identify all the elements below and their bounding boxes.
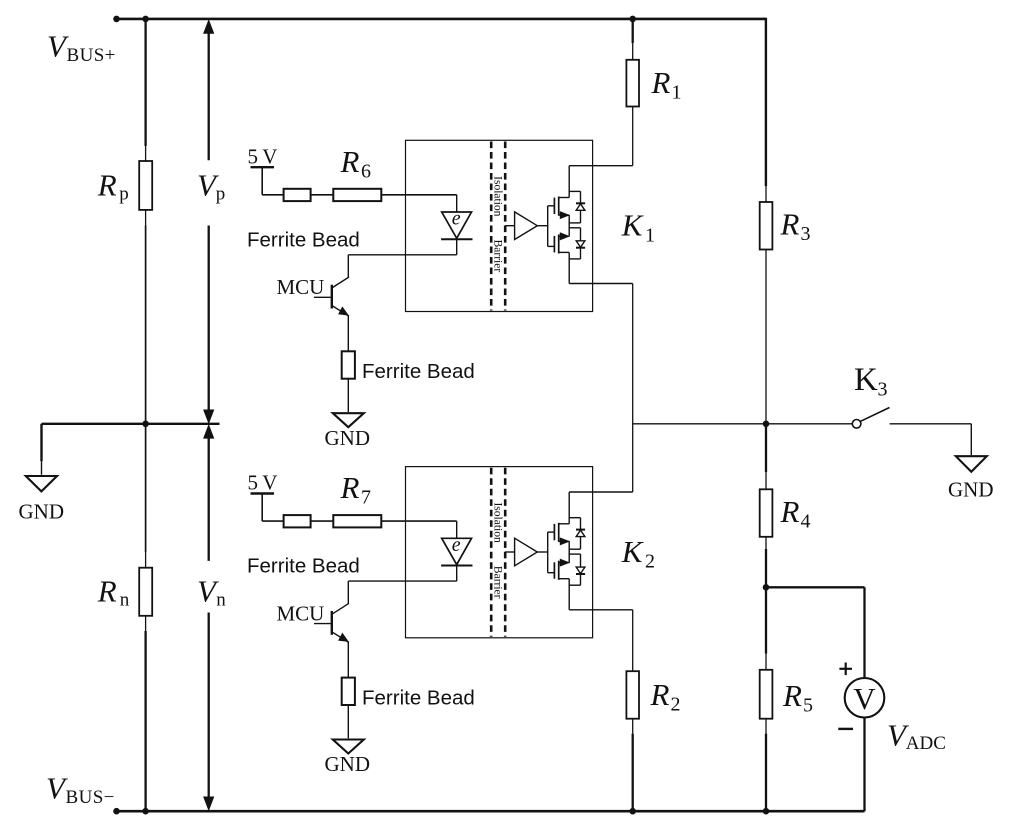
isolation block K1 enclosure [406, 140, 593, 311]
wire LED anode lead (K2) [456, 521, 458, 538]
buffer driver triangle (K1) [515, 212, 538, 240]
wire emitter to ferrite bead (K2) [347, 642, 349, 677]
wire buffer output to gates (K1) [537, 225, 547, 227]
power 5V bar (K2) [251, 492, 275, 494]
wire lower output jog (K2) [569, 609, 633, 611]
svg-text:5 V: 5 V [248, 471, 278, 495]
mosfet upper channel bar (K1) [558, 197, 560, 216]
resistor R_4 [760, 489, 773, 537]
wire lower gate stub (K2) [548, 572, 555, 574]
svg-text:R: R [650, 677, 670, 712]
wire middle rail to switch [766, 423, 852, 425]
svg-text:BUS+: BUS+ [67, 45, 116, 66]
wire upper gate stub (K1) [548, 205, 555, 207]
wire upper output jog (K1) [569, 165, 633, 167]
svg-text:GND: GND [948, 477, 994, 501]
mosfet upper source line (K1) [559, 214, 570, 216]
wire R_4 top lead [765, 472, 767, 489]
label voltmeter minus [838, 728, 853, 730]
wire R_4 to V_ADC junction [765, 549, 767, 587]
svg-text:GND: GND [19, 500, 65, 524]
diode lower body lead bottom (K1) [580, 248, 582, 259]
svg-text:5 V: 5 V [248, 144, 278, 168]
mosfet lower source line (K1) [559, 235, 570, 237]
svg-text:2: 2 [671, 693, 681, 715]
wire R_1 branch from top bus [632, 19, 634, 43]
wire R_2 to bottom bus [632, 734, 634, 812]
wire upper body-diode top jog (K1) [569, 190, 580, 192]
svg-text:5: 5 [803, 694, 813, 716]
resistor R_2 [626, 671, 639, 719]
wire upper body-diode bottom jog (K1) [569, 222, 580, 224]
svg-text:1: 1 [645, 224, 655, 246]
wire R_p bottom lead [145, 210, 147, 226]
diode upper body triangle (K2) [576, 530, 585, 537]
wire R6 to LED anode (K1) [381, 194, 456, 196]
switch K3 blade [861, 408, 890, 422]
svg-text:Isolation: Isolation [492, 176, 504, 216]
mosfet upper gate bar (K2) [553, 524, 555, 540]
diode upper body lead bottom (K1) [580, 210, 582, 223]
transistor MCU collector (K1) [332, 277, 349, 288]
svg-text:p: p [119, 184, 129, 205]
wire lower output jog (K1) [569, 283, 633, 285]
wire switch to right GND corner [890, 423, 972, 425]
transistor MCU base bar (K1) [331, 285, 333, 309]
wire R_n bottom lead [145, 616, 147, 631]
diode lower body cathode bar (K1) [576, 247, 585, 249]
wire R_p top lead [145, 146, 147, 161]
mosfet lower gate bar (K2) [553, 562, 555, 578]
resistor R_3 [760, 202, 773, 250]
svg-text:R: R [651, 65, 671, 100]
node junction middle rail / right branch [763, 421, 770, 428]
diode lower body triangle (K1) [576, 241, 585, 248]
mosfet upper source line (K2) [559, 540, 570, 542]
wire upper gate stub (K2) [548, 531, 555, 533]
transistor MCU emitter (K1) [332, 306, 349, 317]
wire middle rail left segment [42, 423, 220, 425]
isolation barrier dashed line right (K2) [504, 468, 507, 637]
isolation barrier dashed line left (K2) [490, 468, 493, 637]
svg-text:Isolation: Isolation [492, 502, 504, 542]
power 5V bar (K1) [251, 166, 275, 168]
ground MCU GND symbol (K1) [333, 413, 364, 427]
resistor R_n [139, 568, 152, 616]
transistor MCU emitter (K2) [332, 632, 349, 643]
arrow V_n shaft [208, 437, 210, 561]
diode upper body lead top (K2) [580, 518, 582, 530]
ferrite bead series element (K1) [284, 189, 311, 201]
resistor R_5 [760, 670, 773, 719]
arrow V_p shaft upper [208, 32, 210, 161]
ferrite bead series element (K2) [284, 515, 311, 527]
wire R_n top lead [145, 552, 147, 568]
svg-text:Ferrite Bead: Ferrite Bead [362, 360, 475, 383]
opto LED cathode bar (K2) [441, 565, 472, 567]
wire ferrite bead to GND (K1) [347, 379, 349, 412]
wire ferrite bead to R7 (K2) [311, 520, 334, 522]
wire R_2 bottom lead [632, 719, 634, 734]
wire R_4 bottom lead [765, 537, 767, 549]
svg-text:Barrier: Barrier [492, 566, 504, 599]
resistor R_1 [626, 60, 639, 107]
wire voltmeter bottom lead [863, 718, 865, 812]
mosfet lower drain stub (K2) [559, 578, 570, 580]
node junction top bus / R_1 branch [629, 16, 636, 23]
isolation barrier dashed line right (K1) [504, 142, 507, 311]
wire LED cathode lead (K1) [456, 239, 458, 255]
node top-left terminal dot [113, 16, 120, 23]
mosfet upper source arrow (K2) [560, 538, 568, 545]
diode upper body cathode bar (K1) [576, 202, 585, 204]
svg-text:R: R [780, 206, 800, 241]
wire ferrite bead to GND (K2) [347, 705, 349, 738]
wire bottom bus V_BUS- [117, 810, 865, 813]
wire ferrite bead to R6 (K1) [311, 194, 334, 196]
svg-text:K: K [621, 534, 645, 569]
mosfet lower channel bar (K1) [558, 234, 560, 253]
transistor MCU base lead (K1) [314, 296, 331, 298]
mosfet lower source arrow (K1) [560, 233, 568, 240]
arrow V_p head up [204, 20, 214, 33]
svg-text:R: R [782, 678, 802, 713]
wire common source vertical (K1) [568, 215, 570, 236]
opto LED emitter triangle (K1) [442, 212, 472, 238]
mosfet lower channel bar (K2) [558, 561, 560, 580]
diode lower body lead top (K1) [580, 228, 582, 241]
svg-text:7: 7 [361, 487, 371, 509]
wire left GND drop [40, 424, 42, 462]
node junction middle rail / left branch [142, 421, 149, 428]
diode lower body lead top (K2) [580, 554, 582, 567]
mosfet upper drain stub (K2) [559, 523, 570, 525]
mosfet upper drain stub (K1) [559, 197, 570, 199]
mosfet upper gate bar (K1) [553, 198, 555, 214]
svg-text:e: e [452, 534, 461, 556]
svg-text:3: 3 [878, 378, 888, 400]
svg-text:R: R [340, 144, 360, 179]
wire LED cathode lead (K2) [456, 566, 458, 582]
svg-text:MCU: MCU [277, 275, 325, 299]
ground right GND symbol [956, 456, 987, 472]
svg-text:4: 4 [801, 510, 811, 532]
svg-text:R: R [97, 573, 117, 608]
wire 5V stub down (K1) [261, 167, 263, 195]
wire top bus V_BUS+ [117, 18, 766, 21]
svg-text:Ferrite Bead: Ferrite Bead [247, 228, 360, 251]
wire buffer output to gates (K2) [537, 551, 547, 553]
node junction bottom bus / R_n branch [142, 808, 149, 815]
transistor MCU emitter arrow (K1) [339, 307, 348, 315]
diode lower body lead bottom (K2) [580, 574, 582, 585]
wire lower body-diode bottom jog (K2) [569, 584, 580, 586]
node junction bottom bus / R_2 branch [629, 808, 636, 815]
svg-text:V: V [853, 681, 876, 716]
wire lower gate stub (K1) [548, 245, 555, 247]
svg-text:6: 6 [361, 160, 371, 182]
wire lower body-diode top jog (K1) [569, 227, 580, 229]
ferrite bead shunt element (K1) [342, 351, 355, 378]
wire R_5 to bottom bus [765, 734, 767, 812]
wire 5V stub down (K2) [261, 494, 263, 522]
buffer input stub (K1) [505, 225, 514, 227]
wire upper body-diode top jog (K2) [569, 517, 580, 519]
wire R_3 bottom lead [765, 250, 767, 424]
resistor R_p [139, 161, 152, 210]
wire lower drain vertical (K2) [568, 579, 570, 610]
diode upper body lead bottom (K2) [580, 537, 582, 550]
voltmeter V_ADC [845, 678, 885, 718]
diode upper body lead top (K1) [580, 191, 582, 203]
diode upper body triangle (K1) [576, 204, 585, 211]
wire upper body-diode bottom jog (K2) [569, 548, 580, 550]
wire lower body-diode bottom jog (K1) [569, 258, 580, 260]
svg-text:n: n [120, 589, 130, 610]
wire V_ADC tap horizontal [766, 586, 865, 588]
node junction top bus / R_p branch [142, 16, 149, 23]
wire gate link vertical (K2) [547, 532, 549, 573]
transistor MCU base lead (K2) [314, 623, 331, 625]
wire middle rail K outputs to right branch [633, 423, 766, 425]
wire K outputs vertical (K1 lower to K2 upper through rail) [632, 284, 634, 493]
buffer input stub (K2) [505, 551, 514, 553]
svg-text:1: 1 [672, 81, 682, 103]
wire emitter to ferrite bead (K1) [347, 316, 349, 351]
wire upper drain vertical (K1) [568, 166, 570, 198]
transistor MCU base bar (K2) [331, 611, 333, 635]
mosfet upper source arrow (K1) [560, 212, 568, 219]
wire 5V to ferrite bead (K2) [262, 520, 283, 522]
svg-text:R: R [97, 167, 117, 202]
arrow V_p head down [204, 410, 214, 423]
svg-text:K: K [621, 208, 645, 243]
wire common source vertical (K2) [568, 541, 570, 562]
wire R_5 top lead [765, 654, 767, 670]
wire upper output jog (K2) [569, 491, 633, 493]
diode lower body triangle (K2) [576, 567, 585, 574]
svg-text:p: p [216, 184, 226, 205]
diode upper body cathode bar (K2) [576, 529, 585, 531]
svg-text:MCU: MCU [277, 601, 325, 625]
svg-text:GND: GND [325, 426, 371, 450]
switch K3 pivot [852, 420, 861, 429]
wire top bus right corner down to R_3 [765, 18, 767, 186]
wire left branch upper segment [144, 19, 146, 146]
node junction R_4 / V_ADC tap [763, 584, 770, 591]
wire left branch lower segment [144, 631, 146, 811]
wire lower body-diode top jog (K2) [569, 553, 580, 555]
svg-text:Ferrite Bead: Ferrite Bead [362, 687, 475, 710]
wire voltmeter top lead [863, 587, 865, 678]
wire R7 to LED anode (K2) [381, 520, 456, 522]
wire R_2 top lead [632, 610, 634, 671]
mosfet lower source arrow (K2) [560, 559, 568, 566]
wire LED anode lead (K1) [456, 195, 458, 212]
wire junction to R_5 [765, 587, 767, 653]
isolation barrier dashed line left (K1) [490, 142, 493, 311]
wire R_5 bottom lead [765, 719, 767, 734]
buffer driver triangle (K2) [515, 538, 538, 566]
svg-text:R: R [340, 470, 360, 505]
transistor MCU collector (K2) [332, 603, 349, 614]
arrow V_n head down [204, 797, 214, 810]
svg-text:3: 3 [801, 223, 811, 245]
diode lower body cathode bar (K2) [576, 573, 585, 575]
ground left GND symbol [26, 476, 57, 491]
svg-text:ADC: ADC [906, 733, 946, 754]
resistor R7 [333, 515, 381, 527]
opto LED cathode bar (K1) [441, 238, 472, 240]
wire LED cathode to MCU transistor collector (K1) [348, 254, 456, 256]
wire LED cathode to MCU transistor collector (K2) [348, 580, 456, 582]
svg-text:BUS−: BUS− [66, 787, 115, 808]
svg-text:n: n [216, 589, 226, 610]
node bottom-left terminal dot [113, 808, 120, 815]
svg-text:K: K [854, 362, 878, 398]
wire R_3 top lead [765, 186, 767, 202]
label voltmeter plus [839, 668, 852, 670]
wire gate link vertical (K1) [547, 206, 549, 247]
svg-text:e: e [452, 208, 461, 230]
svg-text:Ferrite Bead: Ferrite Bead [247, 555, 360, 578]
wire 5V to ferrite bead (K1) [262, 194, 283, 196]
svg-text:GND: GND [325, 752, 371, 776]
wire upper drain vertical (K2) [568, 492, 570, 524]
ferrite bead shunt element (K2) [342, 678, 355, 705]
wire lower drain vertical (K1) [568, 252, 570, 283]
svg-text:Barrier: Barrier [492, 240, 504, 273]
svg-text:2: 2 [645, 551, 655, 573]
wire R_1 bottom lead [632, 107, 634, 166]
isolation block K2 enclosure [406, 467, 593, 638]
wire R_1 top lead [632, 43, 634, 60]
opto LED emitter triangle (K2) [442, 538, 472, 564]
resistor R6 [333, 189, 381, 201]
node junction bottom bus / R_5 branch [763, 808, 770, 815]
svg-text:R: R [780, 494, 800, 529]
transistor MCU emitter arrow (K2) [339, 634, 348, 642]
wire left branch middle segment [145, 226, 147, 553]
mosfet lower source line (K2) [559, 562, 570, 564]
wire right branch rail to R_4 [765, 424, 767, 472]
arrow V_n head up [204, 425, 214, 438]
mosfet upper channel bar (K2) [558, 523, 560, 542]
mosfet lower gate bar (K1) [553, 236, 555, 252]
ground MCU GND symbol (K2) [333, 740, 364, 754]
mosfet lower drain stub (K1) [559, 251, 570, 253]
